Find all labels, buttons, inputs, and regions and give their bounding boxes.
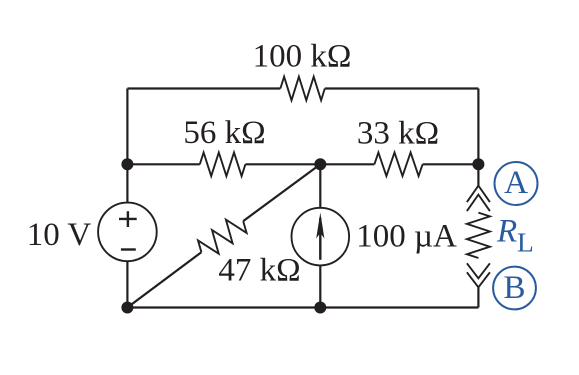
resistor RL zigzag [467,213,490,258]
terminal node B circle [493,267,536,310]
RL top arrow chevron outer (pointing up) [467,186,490,203]
node junction bottom middle [314,302,326,314]
svg-text:100 µA: 100 µA [356,218,457,254]
current source IS 100 uA circle [292,208,350,266]
resistor R4 47 kOhm diagonal lead upper [243,164,320,221]
wire bottom horizontal [127,306,478,308]
node junction row2 middle [314,158,326,170]
svg-text:B: B [503,270,525,306]
wire top-right vertical (top-right corner down to right node) [477,89,479,165]
voltage source plus sign [119,211,137,227]
wire row2: R3 to right node [423,163,479,165]
wire RL top lead: right node down to arrow [477,164,479,186]
RL bottom arrow chevron inner (pointing down) [467,263,490,278]
terminal node A circle [495,162,538,205]
wire left vertical: voltage source bottom to bottom-left node [126,261,128,307]
wire top-left vertical (top-left corner down to left node) [126,89,128,165]
resistor R4 47 kOhm zigzag [198,220,247,254]
svg-text:10 V: 10 V [27,217,92,253]
resistor R3 33 kOhm zigzag [374,153,422,177]
svg-text:L: L [517,227,534,258]
wire row2: R2 to middle node [245,163,320,165]
RL bottom arrow chevron outer (pointing down) [467,272,490,287]
svg-text:47 kΩ: 47 kΩ [218,253,300,289]
RL top arrow chevron inner (pointing up) [467,195,490,212]
wire row2: middle node to R3 [320,163,374,165]
wire middle vertical: middle node to current source top [319,164,321,208]
wire top horizontal left lead of R1 [127,87,280,89]
voltage source minus sign [121,248,136,250]
svg-text:A: A [504,165,528,201]
svg-text:100 kΩ: 100 kΩ [253,39,352,75]
svg-text:R: R [496,214,517,250]
voltage source VS 10 V circle [98,203,157,262]
current source arrowhead [316,213,324,239]
wire RL bottom lead: arrow down to bottom-right corner [477,287,479,308]
current source arrow shaft [319,218,321,260]
resistor R4 47 kOhm diagonal lead lower [127,252,201,307]
node junction row2 left [121,158,133,170]
wire row2: left node to R2 [127,163,199,165]
svg-text:33 kΩ: 33 kΩ [357,115,439,151]
node junction bottom left [121,302,133,314]
wire left vertical: left node to voltage source top [126,164,128,202]
svg-text:56 kΩ: 56 kΩ [183,115,265,151]
resistor R2 56 kOhm zigzag [200,153,246,177]
wire middle vertical: current source bottom to bottom-middle node [319,265,321,307]
resistor R1 100 kOhm zigzag [280,77,324,101]
wire top horizontal right lead of R1 [325,87,479,89]
node junction row2 right [472,158,484,170]
